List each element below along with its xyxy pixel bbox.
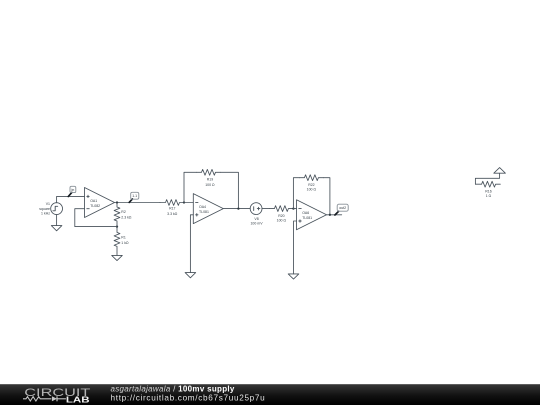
node flag 1.1: box — [131, 192, 139, 199]
wire junction up to feedback — [184, 172, 197, 202]
V1 labels — [39, 202, 50, 215]
resistor R16 1 Ohm — [475, 181, 500, 187]
node dot OA6 - input junction — [292, 207, 294, 209]
ground below OA4 — [185, 273, 196, 278]
svg-text:2.3 kΩ: 2.3 kΩ — [121, 216, 132, 220]
op-amp OA4 TL081 — [193, 194, 223, 224]
OA1 labels — [90, 199, 100, 208]
voltage source V1 (square 1 kHz) — [51, 203, 63, 215]
node flag up-arrow above R16 — [494, 168, 506, 174]
node dot feedback junction — [116, 225, 118, 227]
node dot OA4 output — [237, 207, 239, 209]
node flag in: box — [70, 186, 76, 192]
R1 labels — [121, 235, 129, 245]
wire OA4 - input stub — [184, 202, 193, 204]
wire R22 to OA6 output — [323, 178, 330, 215]
node flag in: tick — [68, 192, 72, 196]
svg-text:V1: V1 — [46, 202, 50, 206]
ground below OA6 — [288, 274, 299, 279]
svg-text:square: square — [39, 207, 50, 211]
resistor R20 100 Ohm — [269, 206, 293, 212]
node dot OA6 output — [329, 214, 331, 216]
wire junction up to feedback — [293, 178, 299, 209]
svg-text:http://circuitlab.com/cb67s7uu: http://circuitlab.com/cb67s7uu25p7u — [111, 394, 266, 403]
R2 labels — [121, 210, 132, 220]
svg-text:V8: V8 — [254, 217, 258, 221]
resistor R17 3.3 kOhm — [160, 200, 184, 206]
ground below V1 — [51, 226, 62, 231]
svg-text:1 kHz: 1 kHz — [41, 211, 50, 215]
svg-text:1 kΩ: 1 kΩ — [121, 241, 129, 245]
svg-text:R19: R19 — [207, 177, 213, 181]
svg-text:LAB: LAB — [66, 395, 90, 404]
svg-text:R22: R22 — [308, 183, 314, 187]
wire arrow to R16 — [475, 173, 499, 184]
R16 labels — [485, 190, 491, 199]
svg-text:R2: R2 — [121, 210, 126, 214]
wire OA6 - input stub — [293, 208, 296, 210]
wire OA6 output — [327, 214, 342, 216]
ground below R1 — [112, 255, 123, 260]
resistor R2 2.3 kOhm — [114, 203, 120, 227]
node flag 1.1: tick — [129, 199, 132, 203]
svg-text:TL082: TL082 — [90, 204, 100, 208]
svg-text:OA4: OA4 — [199, 205, 206, 209]
logo resistor squiggle and diode — [23, 396, 66, 401]
node dot OA4 - input junction — [183, 201, 185, 203]
op-amp OA6 TL081 — [297, 200, 327, 230]
svg-text:1 Ω: 1 Ω — [486, 194, 492, 198]
wire OA4 output — [223, 208, 250, 210]
svg-text:TL081: TL081 — [302, 216, 312, 220]
voltage source V8 100 mV — [250, 203, 262, 215]
OA6 labels — [302, 211, 312, 220]
node dot OA1 output — [116, 201, 118, 203]
svg-text:3.3 kΩ: 3.3 kΩ — [167, 212, 178, 216]
svg-text:100 mV: 100 mV — [250, 222, 263, 226]
OA4 labels — [199, 205, 209, 214]
resistor R22 100 Ohm — [299, 175, 323, 181]
svg-text:R16: R16 — [485, 190, 491, 194]
svg-text:100 Ω: 100 Ω — [307, 188, 317, 192]
resistor R19 100 Ohm — [197, 169, 221, 175]
svg-text:OA6: OA6 — [302, 211, 309, 215]
svg-text:R1: R1 — [121, 235, 126, 239]
V8 labels — [250, 217, 263, 226]
R22 labels — [307, 183, 317, 192]
svg-text:out2: out2 — [339, 206, 346, 210]
svg-text:100 Ω: 100 Ω — [277, 219, 287, 223]
svg-text:OA1: OA1 — [90, 199, 97, 203]
resistor R1 1 kOhm — [114, 227, 120, 256]
wire V1 bottom — [56, 215, 58, 226]
wire V8 right — [262, 208, 269, 210]
wire OA1 output — [115, 202, 161, 204]
svg-text:in: in — [71, 188, 74, 192]
svg-text:R17: R17 — [169, 207, 175, 211]
R19 labels — [205, 177, 215, 187]
R17 labels — [167, 207, 178, 217]
node flag out2: box — [337, 204, 348, 211]
R20 labels — [277, 214, 287, 223]
svg-text:1.1: 1.1 — [132, 194, 137, 198]
svg-text:TL081: TL081 — [199, 210, 209, 214]
wire OA4 + input to ground — [190, 215, 193, 273]
wire OA6 + input to ground — [294, 221, 297, 274]
wire R19 to OA4 output — [221, 172, 239, 208]
op-amp OA1 TL082 — [85, 188, 115, 218]
svg-text:asgartalajawala / 100mv supply: asgartalajawala / 100mv supply — [111, 384, 235, 393]
svg-text:R20: R20 — [278, 214, 284, 218]
wire feedback to OA1 - input — [75, 209, 117, 227]
wire V1 top to OA1 + input — [57, 196, 85, 202]
svg-text:100 Ω: 100 Ω — [205, 183, 215, 187]
node flag out2: tick — [335, 211, 339, 215]
